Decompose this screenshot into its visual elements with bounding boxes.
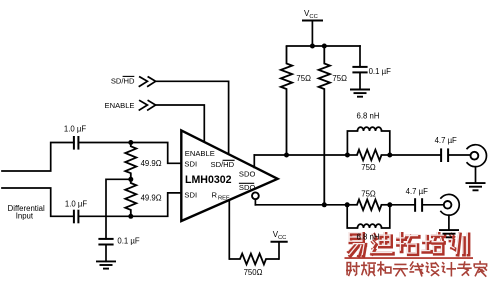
wire SDO-bar output line (255, 204, 347, 206)
wire lower differential input stub (2, 188, 74, 216)
wire ENABLE net to triangle top edge (155, 105, 204, 142)
svg-text:0.1 µF: 0.1 µF (369, 67, 391, 76)
node junction left 75 ohm at SDO line (284, 153, 289, 158)
svg-text:1.0 µF: 1.0 µF (65, 200, 87, 209)
svg-text:CC: CC (309, 14, 317, 20)
wire lower input to SDI pin (79, 193, 181, 216)
power VCC (top rail) (302, 9, 323, 21)
watermark underline (345, 257, 474, 259)
ground (SDO-bar BNC) (439, 230, 459, 237)
svg-text:4.7 µF: 4.7 µF (435, 136, 457, 145)
SD/HD input double-chevron arrow (139, 77, 155, 86)
node junction top of 49.9 rail (128, 140, 133, 145)
resistor 75 ohm (SDO pull-up) (281, 46, 311, 155)
svg-text:ENABLE: ENABLE (105, 101, 135, 110)
svg-text:CC: CC (278, 235, 286, 241)
op-amp U1 LMH0302 cable driver triangle (181, 130, 277, 221)
resistor 75 ohm (SDO-bar pull-up) (319, 46, 347, 205)
wire SDO-bar line to AC coupling cap (390, 204, 414, 206)
resistor 750 ohm (229, 254, 279, 277)
node junction right 75 ohm at SDO-bar line (322, 202, 327, 207)
svg-text:REF: REF (218, 196, 230, 202)
capacitor 4.7 uF (SDO AC coupling) (435, 136, 457, 162)
inductor 6.8 nH (SDO-bar shunt loop) (347, 205, 390, 242)
watermark tagline text line 2 (347, 262, 487, 277)
svg-text:SD/HD: SD/HD (111, 77, 135, 86)
wire upper differential input stub (2, 143, 74, 172)
wire SDO-bar BNC shield to ground (448, 215, 450, 230)
wire SDO-bar output riser from bubble (254, 199, 256, 205)
svg-text:6.8 nH: 6.8 nH (357, 232, 380, 241)
ground (VCC bypass) (350, 90, 370, 97)
node junction SDO-bar line at loop left (345, 202, 350, 207)
resistor 49.9 ohm (lower termination) (125, 179, 161, 216)
node junction right 75 ohm at bus (322, 44, 327, 49)
inductor 6.8 nH (SDO shunt loop) (347, 112, 389, 155)
svg-text:Input: Input (16, 212, 34, 221)
pin label SD/HD (internal) (211, 160, 235, 169)
wire center-tap to bypass capacitor (106, 179, 131, 239)
svg-text:SDO: SDO (239, 183, 256, 192)
wire cap to SDO BNC (449, 154, 471, 156)
node junction SDO-bar line at loop right (387, 202, 392, 207)
svg-text:R: R (212, 190, 218, 199)
wire cap to SDO-bar BNC (423, 204, 444, 206)
capacitor 4.7 uF (SDO-bar AC coupling) (406, 187, 428, 212)
ground (input bypass) (96, 261, 116, 268)
node junction middle of 49.9 rail (128, 177, 133, 182)
svg-text:75Ω: 75Ω (296, 74, 311, 83)
power VCC (RREF pull-up) (271, 230, 288, 242)
ENABLE input double-chevron arrow (139, 101, 155, 110)
pin label SDO-bar (239, 183, 256, 192)
node junction SDO line at loop right (387, 153, 392, 158)
connector BNC (SDO-bar output) (441, 194, 459, 215)
wire RREF pin down (228, 201, 230, 260)
wire SD/HD net to triangle top edge (155, 81, 229, 154)
svg-text:LMH0302: LMH0302 (185, 174, 232, 186)
capacitor 1.0 uF (lower input) (65, 200, 87, 224)
wire bypass cap to ground (105, 245, 107, 262)
wire SDO BNC shield to ground (475, 167, 477, 183)
resistor 49.9 ohm (upper termination) (125, 143, 161, 180)
resistor 75 ohm (SDO-bar series) (347, 190, 390, 211)
svg-text:750Ω: 750Ω (244, 268, 263, 277)
svg-text:SDO: SDO (239, 170, 256, 179)
svg-text:SDI: SDI (184, 160, 197, 169)
wire VCC bus (287, 45, 361, 47)
pin label RREF (212, 190, 231, 201)
svg-text:49.9Ω: 49.9Ω (141, 159, 162, 168)
node SD/HD control label (111, 76, 135, 85)
svg-text:75Ω: 75Ω (361, 163, 376, 172)
wire 750 ohm up to VCC (278, 242, 280, 259)
wire VCC bus to bypass cap (359, 46, 361, 67)
capacitor 1.0 uF (upper input) (64, 124, 86, 149)
wire SDO output line (254, 154, 347, 156)
wire VCC bypass to ground (359, 72, 361, 89)
resistor 75 ohm (SDO series) (347, 150, 389, 172)
watermark brand text line 1 (348, 233, 469, 256)
node junction SDO line at loop left (345, 153, 350, 158)
svg-text:49.9Ω: 49.9Ω (141, 194, 162, 203)
wire SDO output riser (253, 155, 255, 168)
svg-text:ENABLE: ENABLE (185, 149, 215, 158)
node junction VCC drop (310, 44, 315, 49)
label Differential Input (8, 204, 45, 221)
inversion bubble on SDO-bar output (252, 192, 259, 199)
svg-text:75Ω: 75Ω (361, 190, 376, 199)
ground (SDO BNC) (466, 183, 486, 190)
svg-text:SD/HD: SD/HD (211, 160, 235, 169)
capacitor 0.1 uF (VCC bypass) (352, 67, 391, 76)
svg-text:1.0 µF: 1.0 µF (64, 124, 86, 133)
svg-text:75Ω: 75Ω (332, 74, 347, 83)
svg-text:6.8 nH: 6.8 nH (357, 112, 380, 121)
wire VCC drop to bus (311, 21, 313, 47)
wire SDO line to AC coupling cap (390, 154, 440, 156)
node junction bottom of 49.9 rail (128, 214, 133, 219)
capacitor 0.1 uF (input bypass) (98, 236, 139, 245)
svg-text:4.7 µF: 4.7 µF (406, 187, 428, 196)
svg-text:SDI: SDI (184, 191, 197, 200)
wire upper input to SDI pin (79, 143, 181, 164)
svg-text:0.1 µF: 0.1 µF (117, 236, 139, 245)
connector BNC (SDO output) (467, 145, 486, 167)
